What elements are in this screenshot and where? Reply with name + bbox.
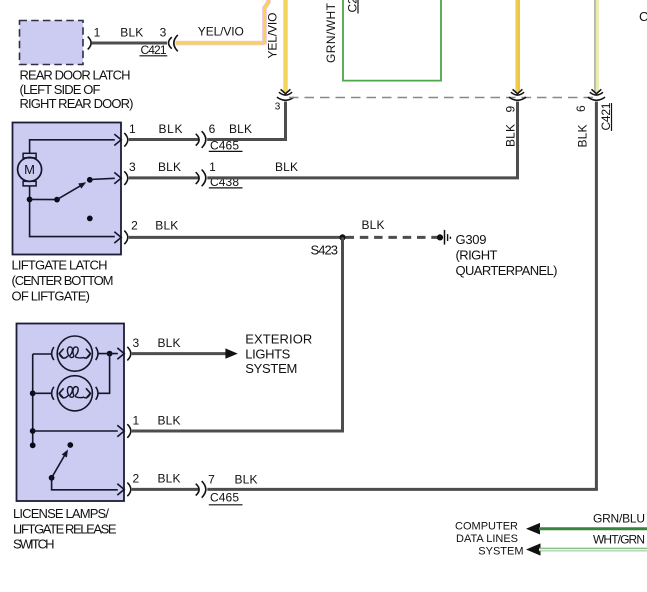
exterior lights system label [245,332,312,377]
wire YEL/VIO horizontal row1 [176,41,265,46]
svg-text:3: 3 [132,336,139,350]
dashed connector line C421 [289,97,594,99]
svg-text:LIFTGATE RELEASE: LIFTGATE RELEASE [13,521,117,536]
license internal: lamp outputs joined, junction dot [107,351,113,357]
svg-text:GRN/BLU: GRN/BLU [593,512,645,526]
svg-text:BLK: BLK [159,122,183,136]
C438 label [209,175,243,189]
connector C465 inline arcs row2 [196,131,206,148]
latch pin2 chevron and arc [114,231,128,245]
wire YEL/VIO corner jog up [265,0,269,45]
ground G309 [437,230,451,245]
license pin1 chevron and arc [117,424,131,438]
row6: wire BLK license pin1 to S423 vertical [132,430,344,433]
wire WHT/GRN [539,548,647,552]
svg-text:DATA LINES: DATA LINES [456,533,518,545]
wire BLK vertical from S423 down [341,237,344,431]
svg-text:C421: C421 [141,43,167,57]
license internal: switch contact dot (bottom of rail) [30,442,36,448]
svg-text:1: 1 [94,26,101,40]
G309 label [456,232,558,278]
connector C438 inline arcs [196,170,206,187]
wire BLK dashed S423 to G309 [346,236,439,239]
latch pin1 chevron and arc [114,133,128,147]
wire BLK vertical A below connector, corner to row2 [207,102,285,140]
row4: wire BLK latch pin2 to splice S423 [129,236,343,239]
svg-text:BLK: BLK [362,218,385,232]
wire YEL/VIO vertical A from top [283,0,288,92]
C2xx connector label rotated (cut at top) [346,0,360,14]
svg-text:6: 6 [209,122,216,136]
computer data lines system label [455,521,523,558]
wire GRN/BLU [539,527,647,530]
liftgate latch (component box) [13,123,122,255]
connector pin 3 at C421 dashed line (vertical A) [277,89,294,100]
svg-text:RIGHT REAR DOOR): RIGHT REAR DOOR) [20,96,134,111]
svg-text:S423: S423 [311,242,339,257]
lamp L1 (top) [52,336,98,371]
latch internal wire motor bottom down and to pin2 [30,186,115,237]
svg-text:C4: C4 [639,9,647,24]
svg-text:BLK: BLK [158,336,181,350]
svg-text:BLK: BLK [235,473,258,487]
latch switch: wire to pivot [30,198,57,200]
license internal: lamp2 feed [33,392,52,394]
svg-text:BLK: BLK [275,160,298,174]
license switch: upper contact dot [67,442,73,448]
wire BLK vertical B to row3 [516,102,519,178]
green subsystem wire GRN/WHT (u-shape) [343,0,441,81]
latch internal wire motor top to pin1 [30,140,115,154]
row2: wire BLK latch pin1 to C465 [129,138,199,141]
motor M1 inside latch [18,153,42,186]
svg-text:BLK: BLK [158,414,181,428]
wire BLK row2 C465 to vertical A [207,138,287,141]
wire pale (WHT) vertical C from top [595,0,597,92]
license internal: lamp1 feed [33,353,52,355]
svg-text:YEL/VIO: YEL/VIO [198,25,244,39]
svg-text:SYSTEM: SYSTEM [245,361,297,376]
svg-text:(LEFT SIDE OF: (LEFT SIDE OF [20,82,101,97]
svg-text:WHT/GRN: WHT/GRN [593,532,645,546]
svg-text:LICENSE LAMPS/: LICENSE LAMPS/ [13,506,109,521]
svg-text:REAR DOOR LATCH: REAR DOOR LATCH [20,68,131,83]
C465 label row2 [209,139,243,153]
license switch: pivot down to pin2 row [52,478,118,490]
latch switch: contact to pin3 [90,178,115,179]
svg-text:SYSTEM: SYSTEM [478,545,523,557]
svg-text:BLK: BLK [229,122,252,136]
license internal: pin1 row wire [33,430,118,432]
latch switch: junction dot [27,197,33,203]
connector pin 6 at C421 dashed line (vertical C) [588,89,605,100]
C421 label [140,43,168,57]
svg-text:2: 2 [132,472,139,486]
svg-text:GRN/WHT: GRN/WHT [324,2,338,63]
license pin3 chevron and arc [117,347,131,361]
svg-text:BLK: BLK [158,160,181,174]
latch switch: arm with arrowhead [57,182,86,199]
license switch: arm with arrowhead [52,450,68,478]
svg-text:BLK: BLK [155,218,178,232]
latch switch: contact dot [87,177,93,183]
license internal: junction dot on pin1 row [30,428,36,434]
svg-text:YEL/VIO: YEL/VIO [266,13,280,59]
arrow GRN/BLU to computer data lines [526,523,540,535]
svg-text:1: 1 [209,160,216,174]
license internal: lamp1 out to pin3 [98,353,118,355]
wire BLK pin1 rear door latch to C421 [92,42,168,45]
wire BLK row3 C438 to vertical B [207,176,519,179]
license internal: lamp2 out and right rail up [98,354,110,394]
svg-text:LIGHTS: LIGHTS [245,347,290,362]
svg-text:BLK: BLK [120,26,143,40]
svg-text:OF LIFTGATE): OF LIFTGATE) [12,289,91,304]
license switch: pivot dot [49,475,55,481]
row7: wire BLK license pin2 to C465 [132,488,199,491]
splice S423 [339,234,345,240]
wire YEL vertical B from top [518,0,520,92]
svg-text:3: 3 [160,26,167,40]
connector C465 inline arcs row7 [196,481,206,498]
rear door latch label [20,68,134,111]
svg-text:9: 9 [504,106,518,113]
license lamps label [13,506,117,552]
svg-text:BLK: BLK [576,125,590,148]
svg-text:M: M [24,162,35,177]
latch switch: pivot dot [54,197,60,203]
svg-text:BLK: BLK [158,472,181,486]
license internal: lamp2 feed junction dot [30,390,36,396]
svg-text:1: 1 [132,414,139,428]
lamp L2 (bottom) [52,376,98,411]
svg-text:7: 7 [208,473,215,487]
svg-text:1: 1 [129,122,136,136]
connector arc at rear door latch pin 1 [88,37,91,50]
svg-text:SWITCH: SWITCH [13,536,55,551]
svg-text:COMPUTER: COMPUTER [455,521,518,533]
svg-text:3: 3 [275,102,281,113]
license lamps / liftgate release switch (component box) [17,324,125,502]
svg-text:BLK: BLK [504,124,518,147]
svg-text:EXTERIOR: EXTERIOR [245,332,312,347]
C465 label row7 [209,490,243,504]
row3: wire BLK latch pin3 to C438 [129,176,199,179]
wire BLK vertical C down to row7 [595,102,598,490]
svg-text:(CENTER BOTTOM: (CENTER BOTTOM [12,273,114,288]
svg-text:2: 2 [131,218,138,232]
connector C421 (inline, arcs) [169,35,178,51]
svg-text:6: 6 [574,105,588,112]
arrow to exterior lights system [225,348,237,358]
rear door latch (component box, dashed) [20,21,84,65]
license internal: left rail [32,354,34,445]
license pin2 chevron and arc [117,483,131,497]
svg-text:LIFTGATE LATCH: LIFTGATE LATCH [12,257,108,272]
connector pin 9 at C421 dashed line (vertical B) [509,89,526,100]
wire BLK row7 C465 to vertical C [207,488,598,491]
svg-text:G309: G309 [456,232,487,247]
row5: wire BLK license pin3 to exterior lights arrow [132,352,226,355]
latch switch: floating contact dot [87,216,93,222]
svg-text:3: 3 [129,160,136,174]
liftgate latch label [12,257,114,303]
latch pin3 chevron and arc [114,171,128,185]
svg-text:QUARTERPANEL): QUARTERPANEL) [456,263,558,278]
svg-text:(RIGHT: (RIGHT [456,247,498,262]
C421 label rotated with underline [599,102,613,131]
svg-text:C465: C465 [210,490,239,504]
arrow WHT/GRN to computer data lines [526,543,541,555]
